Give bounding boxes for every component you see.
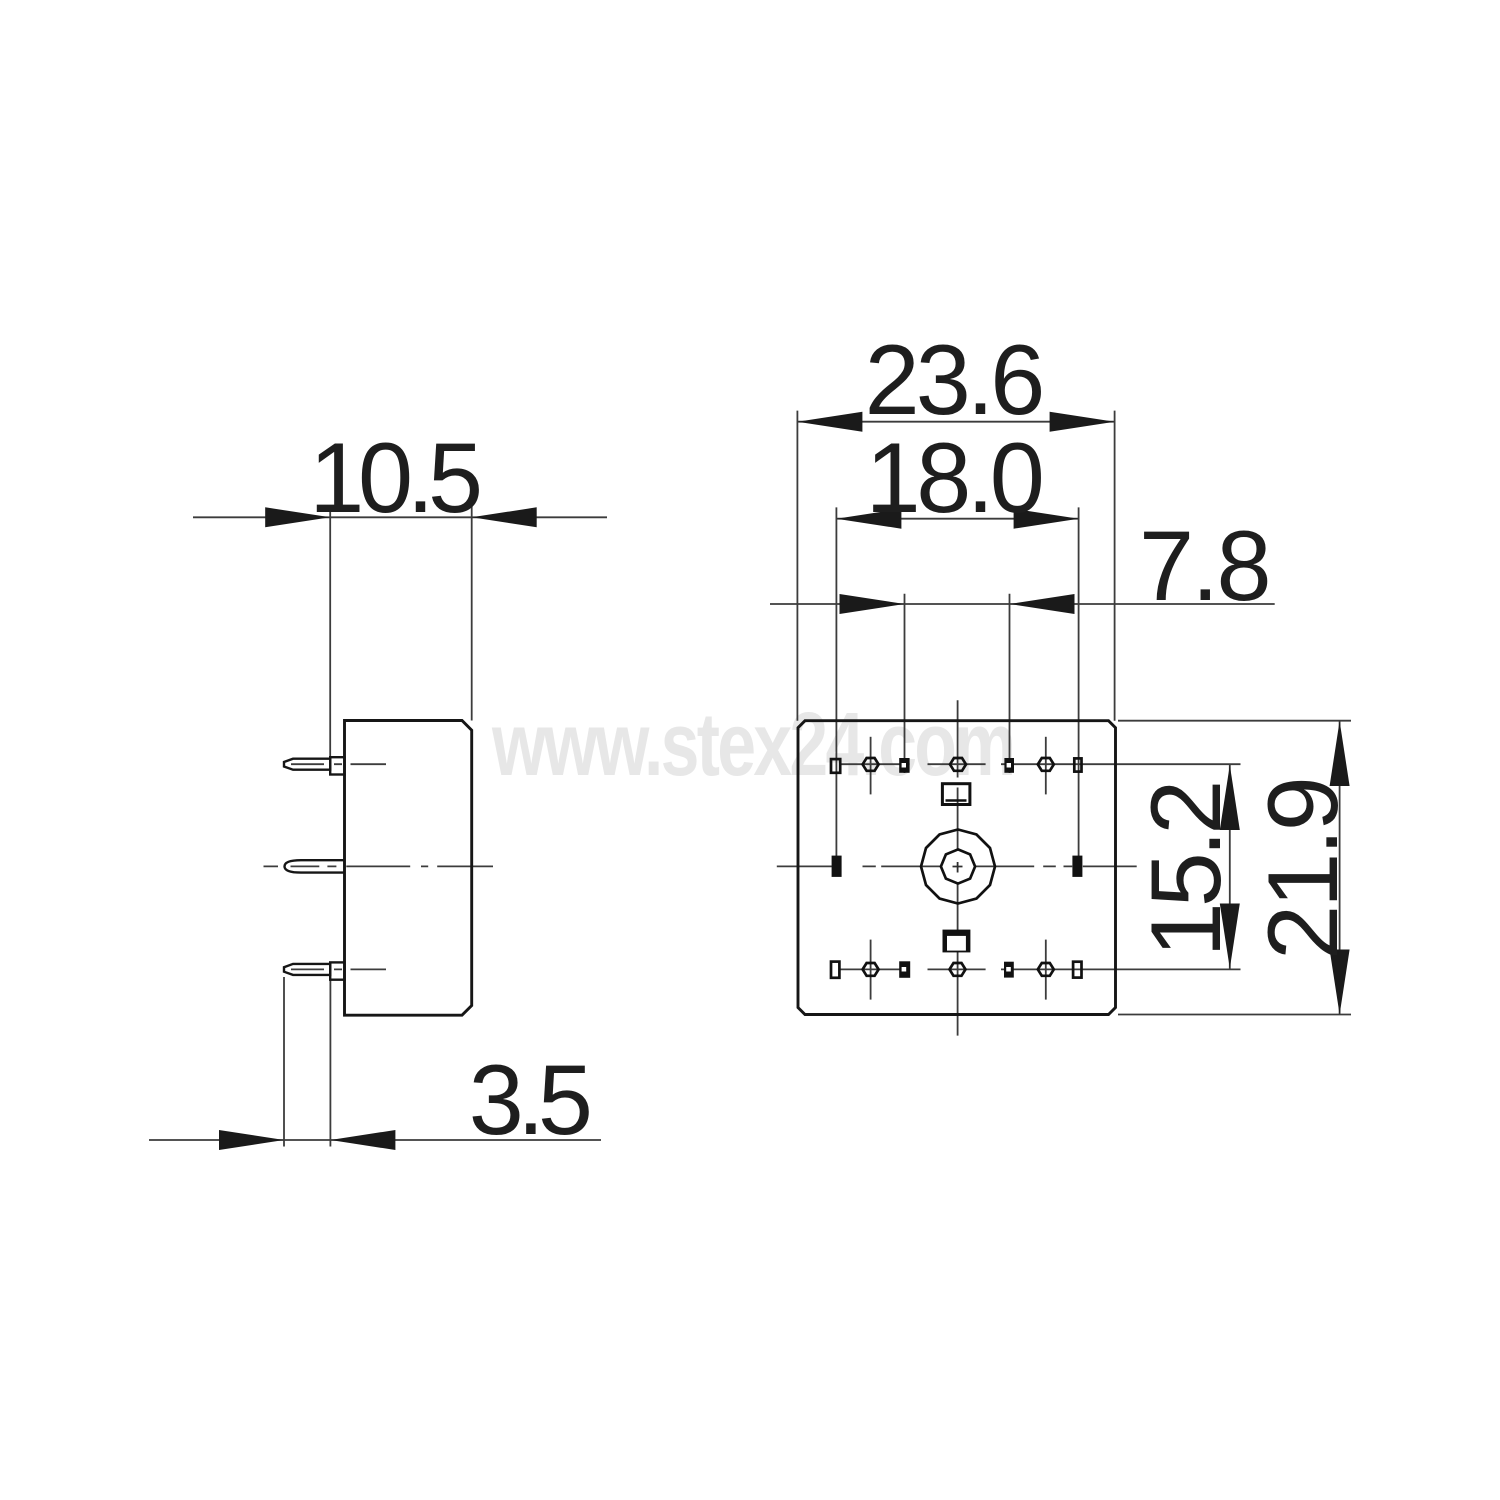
arrowhead 10.5 right — [472, 507, 537, 527]
svg-text:21.9: 21.9 — [1247, 779, 1358, 960]
filled pad bottom row left — [899, 961, 910, 978]
filled pad top row left — [899, 758, 909, 773]
bottom pin (side view) — [284, 964, 330, 975]
top pin row center line — [840, 763, 1241, 765]
arrowhead 21.9 bottom — [1330, 950, 1350, 1015]
extension line left of 18.0 — [835, 507, 837, 875]
center line stub hexagon bottom-right — [1045, 940, 1047, 1000]
center cross of mounting hole — [953, 862, 963, 873]
svg-text:18.0: 18.0 — [866, 422, 1042, 533]
extension line top of 21.9 — [1118, 720, 1351, 722]
svg-text:23.6: 23.6 — [865, 324, 1042, 435]
dimension line 18.0 — [836, 518, 1078, 520]
dimension line 21.9 — [1339, 721, 1341, 1015]
arrowhead 3.5 left — [219, 1130, 284, 1150]
arrowhead 15.2 top — [1220, 765, 1240, 830]
arrowhead 7.8 right — [1010, 594, 1075, 614]
pin hole rect top row far-right — [1074, 758, 1081, 771]
hexagon pad top row left — [863, 758, 879, 771]
pin hole rect top row far-left — [831, 759, 840, 773]
big mounting circle (dodecagon) — [921, 830, 995, 904]
extension line bottom of 21.9 — [1118, 1014, 1351, 1016]
extension line right of 23.6 — [1114, 411, 1116, 721]
dimension line 10.5 — [193, 516, 607, 518]
arrowhead 23.6 right — [1050, 412, 1115, 432]
middle pin (side view) — [285, 860, 345, 872]
center line stub hexagon bottom-left — [870, 940, 872, 1000]
filled pad middle row left — [832, 856, 842, 877]
vertical center line of bottom view — [957, 700, 959, 1035]
hexagon pad bottom row left — [863, 963, 879, 976]
top pin (side view) — [284, 759, 330, 770]
coil window inner line (top symbol) — [946, 799, 967, 802]
extension line right of 10.5 — [471, 506, 473, 721]
relay body (side view) — [345, 721, 472, 1016]
center line of bottom pin — [291, 968, 386, 970]
arrowhead 21.9 top — [1330, 721, 1350, 786]
svg-text:3.5: 3.5 — [469, 1044, 589, 1155]
pin hole rect bottom row far-right — [1073, 962, 1081, 978]
relay base outline (bottom view) — [798, 721, 1116, 1015]
pin hole rect bottom row far-left — [831, 962, 839, 978]
filled pad middle row right — [1072, 856, 1082, 877]
arrowhead 18.0 right — [1014, 509, 1079, 529]
dimension line 23.6 — [797, 421, 1114, 423]
hexagon pad top row center — [950, 758, 966, 771]
center line stub hexagon top-right — [1045, 737, 1047, 795]
hexagon pad bottom row right — [1038, 963, 1054, 976]
dimension line 15.2 — [1229, 765, 1231, 969]
extension line left of 10.5 — [329, 506, 331, 757]
extension line left of 23.6 — [796, 411, 798, 721]
svg-text:15.2: 15.2 — [1130, 784, 1241, 958]
center line of top pin — [291, 763, 386, 765]
center line stub hexagon top-left — [870, 737, 872, 795]
extension line right of 7.8 — [1009, 594, 1011, 773]
center line of middle pin (dash-dot) — [264, 865, 494, 867]
svg-text:www.stex24.com: www.stex24.com — [491, 695, 1013, 796]
arrowhead 23.6 left — [797, 412, 862, 432]
hexagon pad top row right — [1038, 758, 1054, 771]
filled pad bottom row right — [1004, 962, 1014, 978]
extension line left of 3.5 — [283, 977, 285, 1147]
arrowhead 7.8 left — [840, 594, 905, 614]
arrowhead 10.5 left — [265, 507, 330, 527]
filled pad top row right — [1004, 758, 1014, 773]
extension line left of 7.8 — [904, 594, 906, 773]
svg-text:10.5: 10.5 — [309, 422, 479, 533]
coil window symbol (top) — [942, 784, 970, 805]
inner octagon — [941, 849, 975, 883]
top pin base block — [330, 757, 344, 774]
middle row dash-dot center line — [777, 865, 1137, 867]
arrowhead 15.2 bottom — [1220, 904, 1240, 969]
bottom pin row center line — [840, 968, 1241, 970]
arrowhead 18.0 left — [836, 509, 901, 529]
hexagon pad bottom row center — [950, 963, 966, 976]
svg-text:7.8: 7.8 — [1139, 510, 1269, 621]
arrowhead 3.5 right — [330, 1130, 395, 1150]
dimension line 3.5 — [149, 1139, 601, 1141]
extension line right of 18.0 — [1078, 507, 1080, 875]
coil window symbol (bottom, thick) — [943, 930, 971, 953]
extension line right of 3.5 — [329, 980, 331, 1147]
dimension line 7.8 — [770, 603, 1275, 605]
bottom pin base block — [330, 962, 344, 979]
